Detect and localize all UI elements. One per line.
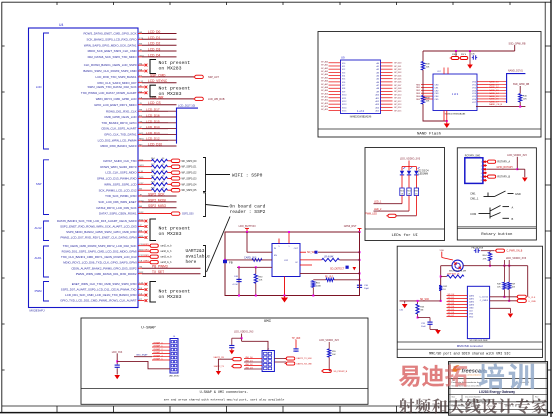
resistor PU_R 0 [313, 277, 359, 282]
svg-text:UART2_RX: UART2_RX [214, 356, 225, 359]
svg-text:GP_D15: GP_D15 [394, 110, 401, 112]
svg-text:D2 D3 D4: D2 D3 D4 [419, 171, 430, 173]
wire U12 top pins [279, 231, 290, 244]
svg-text:DATA5_BANK3_SCK_TXD_LCD_D15_AU: DATA5_BANK3_SCK_TXD_LCD_D15_AUART_CE1N_S… [57, 219, 137, 223]
wires UMI right + off-pages [274, 357, 312, 366]
off-page ROTARY_B [486, 175, 511, 179]
resistors R61 R62 R63 [400, 188, 419, 196]
svg-text:R37 0: R37 0 [461, 54, 466, 56]
wires UMI left + off-pages [214, 356, 263, 370]
resistor pack R36/R37 [450, 51, 468, 60]
svg-text:NAND_D4: NAND_D4 [489, 92, 500, 95]
svg-text:LCD_D02_WRN_LCD_PWM4: LCD_D02_WRN_LCD_PWM4 [98, 138, 137, 142]
net label LDO_VDDIO_3V3 (mmc) [503, 257, 526, 267]
IC U10 NAND flash (2 of 2) [416, 68, 477, 116]
svg-text:LDO_BUTTON: LDO_BUTTON [239, 225, 256, 228]
svg-text:WF_SSP0_D4: WF_SSP0_D4 [182, 184, 198, 186]
svg-text:DATA7_SSP0_CE0N_ROW1: DATA7_SSP0_CE0N_ROW1 [99, 212, 137, 216]
svg-text:LCD_D0: LCD_D0 [148, 30, 160, 34]
label U-SNAP [141, 326, 156, 330]
svg-text:PWM_LED: PWM_LED [365, 213, 377, 216]
bus wire LCD data (blue) [177, 103, 199, 143]
connector SW1 rotary encoder [465, 155, 487, 184]
wire U12 bottom pin to ground [284, 277, 286, 297]
svg-text:are and arrow shared with exte: are and arrow shared with external mmc/s… [164, 397, 285, 401]
svg-text:on MX283: on MX283 [159, 66, 182, 72]
svg-text:UMI_MOD: UMI_MOD [169, 375, 180, 377]
svg-text:GP_A11: GP_A11 [321, 95, 328, 98]
svg-text:NAND_D3: NAND_D3 [489, 89, 500, 92]
svg-text:U3RX: U3RX [143, 261, 149, 263]
svg-text:GP_A08: GP_A08 [321, 86, 328, 89]
svg-text:PWM1_WRN_CMD_DATA6_D01_RXD_ROW: PWM1_WRN_CMD_DATA6_D01_RXD_ROW2 [76, 272, 137, 276]
svg-text:TXD_BANK3_RDY0_GPIO: TXD_BANK3_RDY0_GPIO [101, 121, 137, 125]
svg-text:Not present: Not present [159, 226, 191, 232]
svg-text:LEDs for UI: LEDs for UI [391, 233, 417, 238]
svg-text:1: 1 [481, 162, 482, 164]
svg-text:SD_D0: SD_D0 [448, 294, 456, 296]
document number row [452, 395, 541, 402]
capacitor FB2 BLM18 [472, 248, 495, 253]
wire bottom right net [300, 272, 360, 274]
svg-text:FB: FB [229, 260, 233, 264]
switch SW CM1 [470, 191, 521, 200]
svg-text:WF_SSP0_D0: WF_SSP0_D0 [182, 161, 198, 163]
U4 pin rows pwm nets [71, 265, 200, 276]
svg-text:U-SNAP & UMI connectors.: U-SNAP & UMI connectors. [200, 390, 249, 395]
svg-text:ROW0_D01_RXD_CLK: ROW0_D01_RXD_CLK [106, 109, 137, 113]
svg-text:Not present: Not present [159, 288, 191, 294]
svg-text:GP_A03: GP_A03 [321, 70, 328, 73]
svg-text:PWM2_LCD_D07_RXD_RDY1_ENET_CLK: PWM2_LCD_D07_RXD_RDY1_ENET_CLK_DATA3_GPM… [60, 236, 136, 240]
watermark text line1 (red/blue CJK) [399, 363, 534, 389]
svg-text:GPIO_CLK_TXD_DATA1: GPIO_CLK_TXD_DATA1 [104, 133, 137, 137]
ground arrow card reader [281, 296, 288, 303]
svg-text:WF_SSP0_D1: WF_SSP0_D1 [182, 167, 198, 169]
ground arrow U-SNAP [114, 375, 120, 379]
svg-text:5: 5 [279, 246, 280, 248]
label U4 [59, 23, 63, 27]
note: Not present on MX283 (3) [150, 219, 190, 241]
svg-text:LCD_VSYNC: LCD_VSYNC [148, 79, 168, 83]
resistor R55 10K + off-page SD_PRSNT [319, 339, 347, 373]
svg-text:GPMI_RST: GPMI_RST [344, 225, 357, 228]
svg-text:SCK_PWM0_LCD_LCD_D12: SCK_PWM0_LCD_LCD_D12 [99, 188, 137, 192]
svg-text:MDIO_SCK_ENET_SSP2_CLK_CMD: MDIO_SCK_ENET_SSP2_CLK_CMD [88, 49, 137, 53]
svg-text:LCD_D16: LCD_D16 [146, 114, 160, 118]
title block address row [452, 379, 530, 388]
svg-text:SSP2_ENET_RXD_ROW0_WRN_SCK_AUA: SSP2_ENET_RXD_ROW0_WRN_SCK_AUART_LCD_D03 [60, 225, 137, 229]
svg-text:SD_D1: SD_D1 [448, 297, 456, 299]
svg-text:LCD_D13: LCD_D13 [146, 131, 160, 135]
capacitor C30 10pF [357, 284, 370, 290]
wires U13 right + off-page pair [490, 295, 537, 303]
svg-text:U9: U9 [341, 56, 345, 60]
wire VDD to socket [439, 250, 453, 260]
U4 pin rows group2 [83, 63, 219, 85]
svg-text:SSP2_MISO: SSP2_MISO [148, 204, 167, 208]
svg-text:MDIO_RDY2_LCD_D06_TXD_CLK_GPIO: MDIO_RDY2_LCD_D06_TXD_CLK_GPIO_SAIF0_GPM… [63, 260, 136, 264]
svg-text:47K: 47K [483, 258, 487, 260]
svg-text:LCD_D2: LCD_D2 [148, 42, 160, 46]
svg-text:UART2&3: UART2&3 [186, 248, 205, 254]
U-SNAP & UMI bordered region [81, 318, 368, 404]
IC U4 (i.MX283 processor block) body [29, 28, 139, 308]
svg-text:D_CLK: D_CLK [529, 297, 536, 299]
svg-text:ROTARY_B: ROTARY_B [497, 176, 510, 179]
svg-text:UART2_TX: UART2_TX [214, 365, 225, 368]
svg-text:GP_A05: GP_A05 [321, 76, 328, 79]
svg-text:10pF: 10pF [364, 288, 370, 290]
svg-text:SSP2_MOSI: SSP2_MOSI [148, 198, 166, 202]
svg-text:TXD_CLK_BANK3_CMD_RDY1_CE0N_RO: TXD_CLK_BANK3_CMD_RDY1_CE0N_ROW3_LCD_D13 [61, 255, 137, 259]
ground arrow under U10 [444, 122, 450, 129]
resistor R40 10K [513, 84, 530, 106]
wire + ground under U10 [423, 104, 448, 122]
svg-text:on MX283: on MX283 [159, 91, 182, 97]
svg-text:R36 0: R36 0 [452, 54, 457, 56]
svg-text:SSP0_MDIO_BANK2_GPMI_SSP2_GPIO: SSP0_MDIO_BANK2_GPMI_SSP2_GPIO_CMD_RXD [66, 230, 136, 234]
svg-text:On board card: On board card [230, 203, 266, 209]
svg-text:GP_A02: GP_A02 [321, 67, 328, 70]
svg-text:GP_D09: GP_D09 [394, 91, 401, 93]
svg-text:LCD_D1: LCD_D1 [148, 36, 160, 40]
U4 pin rows LCD data joining bus [98, 108, 177, 148]
svg-text:MICROSD HLDR: MICROSD HLDR [449, 271, 466, 273]
svg-text:C_CMD3: C_CMD3 [480, 300, 489, 302]
svg-text:10K: 10K [426, 101, 430, 103]
svg-text:GP_D08: GP_D08 [394, 88, 401, 90]
title text [479, 390, 515, 394]
net wire GPIO_ROTARY [487, 166, 517, 169]
wires U-SNAP pins [134, 341, 170, 360]
svg-text:GP_A13: GP_A13 [321, 102, 328, 105]
svg-text:LDO_VDDIO_3V3: LDO_VDDIO_3V3 [234, 331, 254, 334]
svg-text:SD_D6: SD_D6 [448, 312, 456, 314]
svg-text:GND: GND [515, 192, 521, 196]
svg-text:GP_D07: GP_D07 [394, 85, 401, 87]
svg-text:FB2 BLM18: FB2 BLM18 [472, 248, 484, 250]
svg-text:Not present: Not present [159, 60, 191, 66]
svg-text:ROTARY_SW1: ROTARY_SW1 [465, 155, 481, 158]
testpoint TP_UMI [292, 338, 301, 352]
svg-text:uart2_rx_b: uart2_rx_b [161, 245, 173, 248]
svg-text:2: 2 [481, 165, 482, 167]
svg-text:1: 1 [289, 246, 290, 248]
svg-text:COM: COM [470, 212, 476, 216]
svg-text:GP_D01: GP_D01 [394, 66, 401, 68]
bus wire NAND data (blue) [507, 70, 526, 103]
svg-text:U2RX: U2RX [143, 255, 149, 257]
resistor R39 10K [421, 96, 430, 105]
wire socket rail [463, 266, 528, 297]
wire socket left leg [440, 266, 452, 302]
MMC/SD bordered region [397, 246, 542, 357]
wire OC row [300, 264, 312, 266]
U4 pin rows group7 [57, 219, 147, 240]
svg-text:USNAP_5: USNAP_5 [153, 358, 163, 361]
svg-text:NAND_D0: NAND_D0 [489, 81, 500, 84]
resistors R48 R49 pullups [497, 266, 516, 302]
svg-text:SD_DETECT: SD_DETECT [330, 267, 345, 270]
callout bracket uart [203, 217, 230, 277]
connector J5 UMI header [262, 348, 274, 371]
svg-text:U0RX: U0RX [143, 244, 149, 246]
svg-text:10nF: 10nF [421, 326, 426, 328]
svg-text:SSD_GPMI_RB: SSD_GPMI_RB [513, 84, 530, 86]
svg-text:LCD_RXD_TXD_SSP0_BANK1: LCD_RXD_TXD_SSP0_BANK1 [96, 75, 137, 79]
svg-text:available: available [186, 254, 211, 260]
capacitor C35 [471, 54, 477, 60]
power flag LDO_BUTTON [239, 225, 256, 233]
svg-text:10K: 10K [258, 280, 262, 282]
svg-text:SSP_ACT: SSP_ACT [208, 76, 219, 79]
svg-text:LR 4.64K: LR 4.64K [324, 256, 334, 258]
svg-text:MMC/SD connector: MMC/SD connector [457, 344, 483, 348]
wires SD data to U13 [447, 294, 468, 317]
resistor R43 1M [416, 300, 425, 319]
off-page ROTARY_A [486, 160, 511, 164]
svg-text:LDO_VDDIO_3V3: LDO_VDDIO_3V3 [506, 257, 527, 260]
resistor R42 1K horiz [441, 273, 464, 278]
svg-text:Rotary button: Rotary button [481, 232, 513, 237]
svg-text:LCD_WR_RUB: LCD_WR_RUB [208, 98, 225, 101]
svg-text:LCD_D10: LCD_D10 [148, 143, 162, 147]
connector J4 U-SNAP header [169, 336, 180, 377]
wire pin2 CARD_3V3 [224, 257, 272, 262]
wires U10 data pins to bus [472, 81, 506, 104]
svg-text:TX_SET: TX_SET [152, 270, 164, 274]
svg-text:here: here [186, 259, 197, 265]
svg-text:100K: 100K [316, 286, 322, 288]
svg-text:GP_A04: GP_A04 [321, 73, 328, 76]
pin-group brackets inside U4 [35, 33, 50, 301]
svg-text:LCD_D15: LCD_D15 [146, 119, 160, 123]
svg-text:10K: 10K [426, 67, 430, 69]
svg-text:AU12: AU12 [35, 226, 42, 230]
svg-text:WIFI : SSP0: WIFI : SSP0 [232, 172, 263, 178]
svg-text:VDD: VDD [469, 317, 474, 319]
svg-text:LDO_3V3: LDO_3V3 [112, 351, 123, 354]
svg-text:CM1: CM1 [470, 192, 476, 196]
svg-text:GP_D13: GP_D13 [394, 104, 401, 106]
svg-text:GPIO_ROTARY: GPIO_ROTARY [497, 166, 514, 169]
wire far-left + ground UMI [216, 359, 232, 375]
svg-text:C_PWR_ON_B: C_PWR_ON_B [507, 251, 523, 253]
svg-text:WRN_SSP2_SSP0_LCD: WRN_SSP2_SSP0_LCD [104, 182, 136, 186]
svg-text:USNAP_0: USNAP_0 [153, 341, 163, 344]
callout bracket + text On board card reader : SSP2 [203, 193, 266, 217]
svg-text:LED_2: LED_2 [374, 208, 382, 211]
svg-text:SD_D7: SD_D7 [448, 315, 456, 317]
svg-text:VSS: VSS [469, 314, 474, 316]
U4 pin rows SSP0 WIFI with series resistors [97, 158, 197, 192]
note: Not present on MX283 (4) [150, 282, 190, 303]
capacitor C36 [229, 338, 241, 348]
svg-text:CMD_GPMI_CE1N_LCD: CMD_GPMI_CE1N_LCD [104, 115, 136, 119]
svg-text:USNAP_3: USNAP_3 [153, 351, 163, 354]
svg-text:GP_D10: GP_D10 [394, 94, 401, 96]
svg-text:SD USD HOLDER: SD USD HOLDER [470, 340, 488, 342]
svg-text:SSP2_SS0: SSP2_SS0 [182, 214, 194, 216]
svg-text:SD_PRSNT_B: SD_PRSNT_B [334, 371, 348, 373]
svg-text:GPIO_TXD_LCD_D02_CMD_PWM1_ROW1: GPIO_TXD_LCD_D02_CMD_PWM1_ROW1_CLK_AUART [60, 299, 136, 303]
capacitor C40 4.7uF [232, 267, 241, 296]
svg-text:GP_A09: GP_A09 [321, 89, 328, 92]
LEDs for UI bordered region [365, 148, 445, 241]
svg-text:uart2_tx_b: uart2_tx_b [161, 250, 173, 253]
resistor R50 10K [254, 267, 263, 296]
svg-text:GP_D03: GP_D03 [394, 72, 401, 74]
svg-text:B: B [512, 217, 514, 221]
svg-text:5: 5 [481, 177, 482, 179]
svg-text:TP_UMI: TP_UMI [292, 338, 301, 340]
svg-text:LDO_VDDIO_3V3: LDO_VDDIO_3V3 [400, 157, 421, 160]
svg-text:4: 4 [481, 173, 482, 175]
svg-text:LCD_D17: LCD_D17 [146, 108, 160, 112]
note: Not present on MX283 (2) [150, 85, 190, 97]
U4 pin rows LCD control (nets LCD_RS..) [83, 30, 176, 59]
svg-text:GP_D02: GP_D02 [394, 69, 401, 71]
svg-text:LCD_D01_SCK_CMD_LCD_CE1N_TXD_B: LCD_D01_SCK_CMD_LCD_CE1N_TXD_BANK3_RXD [65, 293, 136, 297]
svg-text:GND_SNAP: GND_SNAP [136, 353, 148, 356]
U4 pin rows SSP2 card [96, 193, 194, 216]
svg-text:WRN_RDY3_CMD_GPMI_LCD: WRN_RDY3_CMD_GPMI_LCD [96, 97, 137, 101]
svg-text:MMC/SD port and SDIO shared wi: MMC/SD port and SDIO shared with UMI SIC [429, 352, 510, 357]
svg-text:NAND_CE_B: NAND_CE_B [489, 103, 503, 106]
svg-text:SD_D2: SD_D2 [448, 300, 456, 302]
resistor LR 4.64K row [300, 256, 360, 261]
svg-text:LX283 Energy Gateway: LX283 Energy Gateway [479, 390, 515, 394]
svg-text:WRN_SAIF0_GPIO_MDIO_SCK_DATA1: WRN_SAIF0_GPIO_MDIO_SCK_DATA1 [84, 43, 137, 47]
net wire GPMI_RST vertical [344, 225, 362, 295]
svg-text:CE0N_CLK_SSP2_AUART: CE0N_CLK_SSP2_AUART [101, 127, 137, 131]
IC U12 card power switch [272, 244, 300, 277]
svg-text:USNAP_2: USNAP_2 [153, 348, 163, 351]
net wire NAND top rail [423, 42, 526, 52]
power + cap + ground U-SNAP [112, 351, 123, 375]
resistor R38 10K [421, 51, 430, 96]
svg-text:SSD_GPMI_RB: SSD_GPMI_RB [508, 42, 525, 45]
svg-text:LDO_VDDIO_3V3: LDO_VDDIO_3V3 [507, 154, 527, 157]
svg-text:SCK_LCD_D06_WRN_ENET: SCK_LCD_D06_WRN_ENET [98, 200, 136, 204]
connector J6 microSD socket [449, 260, 466, 273]
svg-text:MDIO_RXD_BANK3_SAIF0: MDIO_RXD_BANK3_SAIF0 [101, 144, 137, 148]
LEDs D2 D3 D4 [400, 167, 430, 189]
freescale logo [452, 365, 493, 376]
svg-text:WF_SSP0_D5: WF_SSP0_D5 [182, 190, 198, 192]
svg-text:LCD_D4: LCD_D4 [148, 53, 160, 57]
svg-text:NAND_D1: NAND_D1 [489, 83, 500, 86]
svg-text:1 of 2: 1 of 2 [452, 92, 459, 96]
svg-text:U1RX: U1RX [143, 250, 149, 252]
svg-text:NAND_D[7:0]: NAND_D[7:0] [508, 70, 523, 73]
resistor R42 1K vert [439, 285, 448, 291]
svg-text:USNAP_1: USNAP_1 [153, 345, 163, 348]
svg-text:NAND_D6: NAND_D6 [489, 98, 500, 101]
svg-text:SSP: SSP [36, 182, 42, 186]
svg-text:NAND Flash: NAND Flash [417, 132, 442, 137]
switch SW COM [470, 205, 513, 221]
svg-text:WF_SSP0_D3: WF_SSP0_D3 [182, 178, 198, 180]
IC U9 NAND flash (1 of 2) [321, 56, 401, 119]
svg-text:on MX283: on MX283 [159, 294, 182, 300]
svg-text:DNP R41 1K: DNP R41 1K [447, 273, 460, 275]
svg-text:LCD_D12: LCD_D12 [146, 137, 160, 141]
Rotary button bordered region [457, 148, 536, 240]
wire SD_WP row [300, 251, 360, 255]
svg-text:ROTARY_A: ROTARY_A [497, 161, 510, 164]
svg-text:GP_A07: GP_A07 [321, 83, 328, 86]
svg-text:GP_A12: GP_A12 [321, 99, 328, 102]
power net UMI left [234, 331, 268, 351]
svg-text:UART2_TX_UMI: UART2_TX_UMI [297, 357, 312, 360]
title block frame [449, 362, 548, 416]
card reader outer net loop [225, 232, 360, 296]
svg-text:GP_A01: GP_A01 [321, 64, 328, 67]
svg-text:SSP2_CE0N_TXD_DATA0_D02_SCK: SSP2_CE0N_TXD_DATA0_D02_SCK [87, 85, 136, 89]
svg-text:6: 6 [481, 180, 482, 182]
off-page C_PWR_ON [494, 249, 522, 253]
svg-text:GP_A06: GP_A06 [321, 80, 328, 83]
svg-text:GP_D05: GP_D05 [394, 79, 401, 81]
svg-text:LCD: LCD [36, 85, 42, 89]
watermark text line2 (dark CJK) [399, 398, 547, 414]
svg-text:semiconductor: semiconductor [467, 374, 481, 377]
svg-text:GP_A10: GP_A10 [321, 92, 328, 95]
svg-text:MX283APJ: MX283APJ [30, 308, 46, 312]
svg-text:NAND2GW3B2AZA6: NAND2GW3B2AZA6 [445, 113, 466, 116]
svg-text:UMI_D2: UMI_D2 [245, 364, 253, 366]
IC U13 SD level shifter [467, 286, 489, 342]
svg-text:reader : SSP2: reader : SSP2 [230, 209, 266, 215]
svg-text:UMI_D3: UMI_D3 [245, 368, 253, 370]
power net LDO_VDDIO_3V3 (rotary) [507, 154, 527, 177]
svg-text:BANK1_SSP2_CLK_ROW3_SSP0_CMD: BANK1_SSP2_CLK_ROW3_SSP0_CMD [83, 69, 136, 73]
svg-text:GPMI_LCD_D13_PWM4_RXD: GPMI_LCD_D13_PWM4_RXD [97, 177, 137, 181]
svg-text:ENET_WRN_CLK_TXD_CMD_SSP2_SSP0: ENET_WRN_CLK_TXD_CMD_SSP2_SSP0_RXD [72, 282, 137, 286]
wire pin3 [237, 266, 272, 268]
note UART2&3 available here [186, 248, 211, 265]
svg-text:LCD_D14: LCD_D14 [146, 125, 160, 129]
NAND Flash bordered region [318, 32, 541, 138]
svg-text:GP_D11: GP_D11 [394, 98, 401, 100]
svg-text:D_CMD: D_CMD [529, 301, 537, 303]
resistor R51 100K [312, 281, 322, 297]
svg-text:SD_D5: SD_D5 [448, 309, 456, 311]
net wire SD_SCK [400, 299, 441, 301]
svg-text:LED_1: LED_1 [374, 200, 382, 203]
svg-text:GP_D06: GP_D06 [394, 82, 401, 84]
svg-text:SD_D4: SD_D4 [448, 306, 456, 308]
date sheet row [452, 404, 522, 407]
label UMI [264, 320, 271, 324]
svg-text:LDO_VDDIO_3V3: LDO_VDDIO_3V3 [319, 339, 339, 342]
callout bracket WIFI : SSP0 [203, 158, 263, 192]
svg-text:D02_DATA6_SCK_SSP0_TXD_MDIO: D02_DATA6_SCK_SSP0_TXD_MDIO [88, 55, 138, 59]
note: Not present on MX283 (1) [150, 60, 190, 74]
svg-text:PWM: PWM [35, 289, 43, 293]
svg-text:PB_PWM3: PB_PWM3 [152, 265, 168, 269]
svg-text:GP_A14: GP_A14 [321, 105, 328, 108]
wire step U-SNAP [117, 361, 170, 368]
wire pin1 from LDO_BUTTON [247, 232, 272, 252]
svg-text:GPIO_LCD_ENET_RDY1_MDIO: GPIO_LCD_ENET_RDY1_MDIO [94, 103, 137, 107]
svg-text:TXD_CE0N_CMD_ROW0_SSP0_RDY2_LC: TXD_CE0N_CMD_ROW0_SSP0_RDY2_LCD_D02_SCK [63, 244, 137, 248]
svg-text:CM1_1: CM1_1 [470, 196, 479, 200]
svg-text:GP_D12: GP_D12 [394, 101, 401, 103]
svg-text:CLK_ROW3_BANK1_CE0N_LCD_SSP0: CLK_ROW3_BANK1_CE0N_LCD_SSP0 [84, 63, 137, 67]
